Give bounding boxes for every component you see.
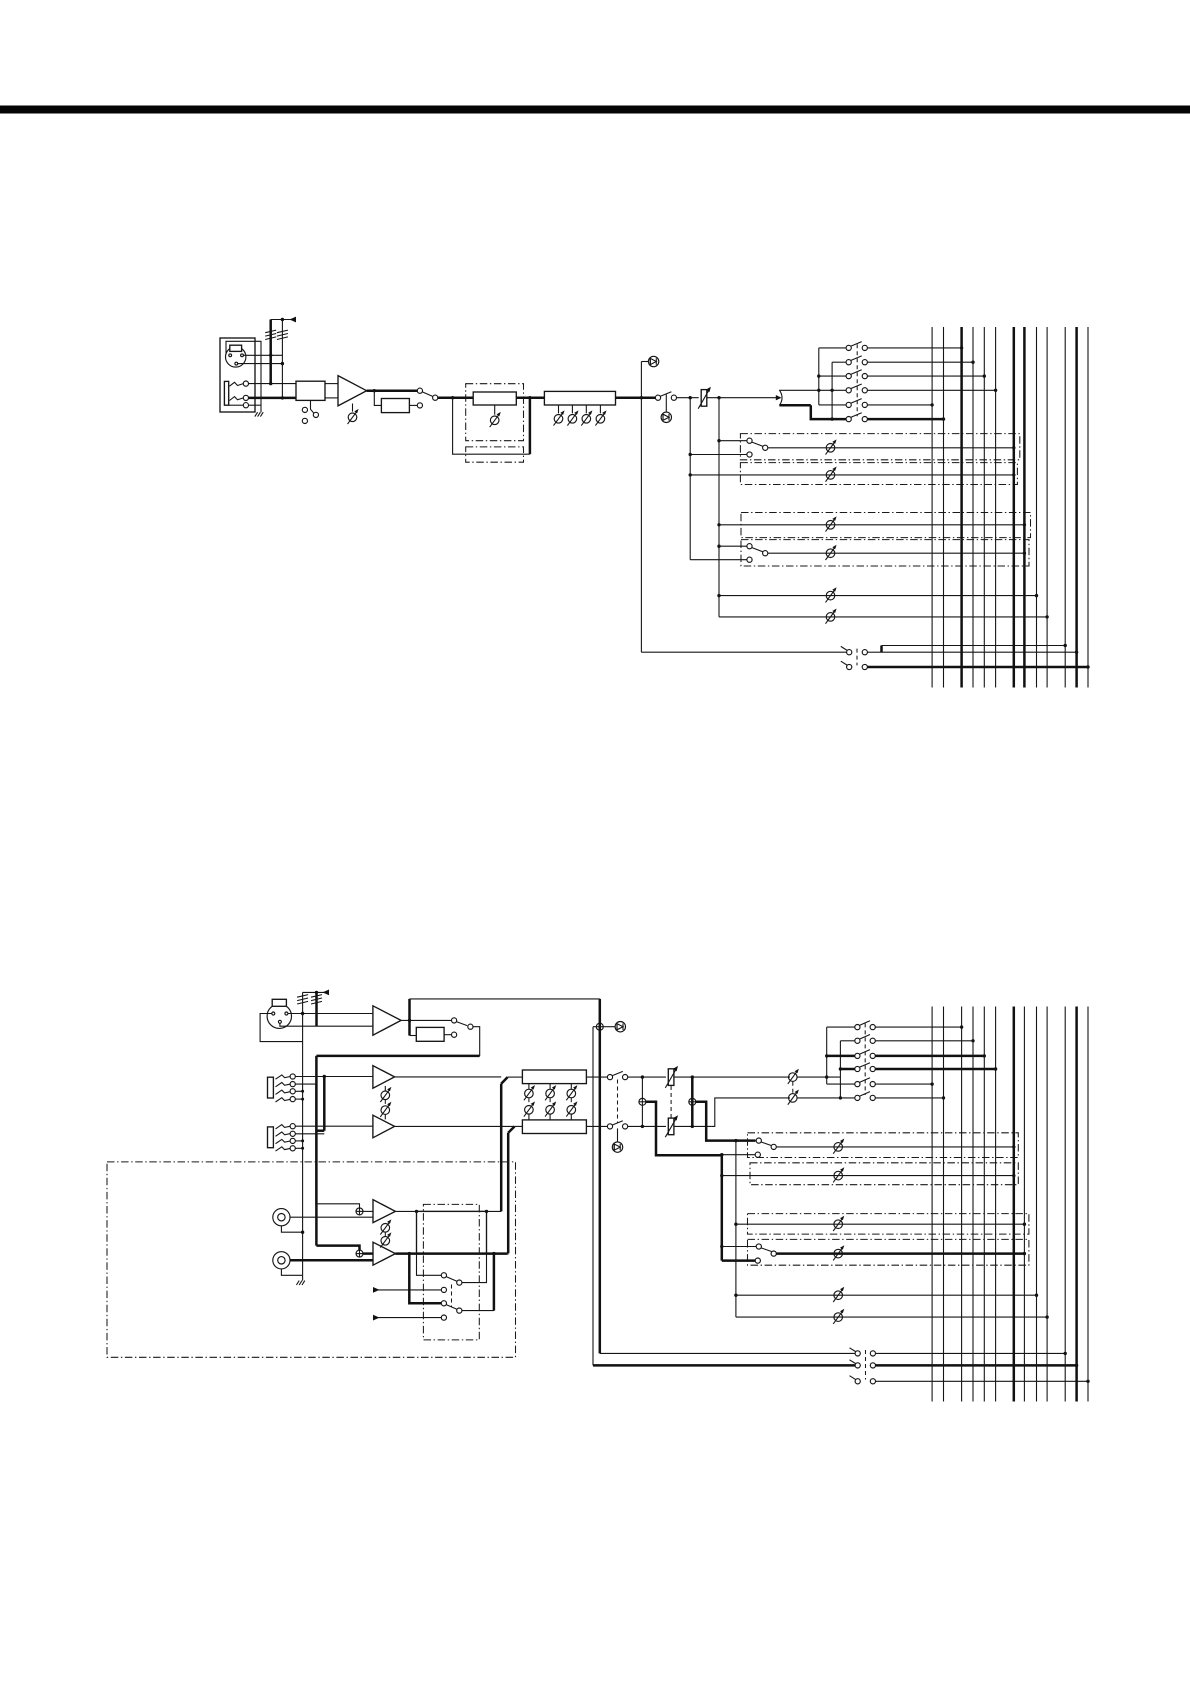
summing node pre [639, 1098, 646, 1105]
assign2 switch 4 lever [859, 1063, 870, 1068]
eff2 pre/post pole [763, 551, 768, 556]
2TR R arrowhead [373, 1315, 380, 1321]
op-amp A1 head amp [338, 376, 367, 406]
junction pan L / even feed [830, 389, 833, 392]
wire assign row3 to bus [867, 375, 984, 377]
assign switch 5 contact R [862, 402, 867, 407]
wire eff1 send 2 [736, 1223, 1025, 1225]
pot EFF2 st [833, 1245, 844, 1260]
junction row4/bus [994, 389, 997, 392]
wire L into EQ [508, 1076, 523, 1078]
op-amp A2 st-mic head amp [373, 1006, 401, 1035]
junction PFL/bus12 [1075, 651, 1078, 654]
wire head amp out (thick) [367, 389, 418, 392]
wire mix bus 4 st [972, 1007, 974, 1402]
wire send4 row 2 [736, 1316, 1047, 1318]
wire ground stub [260, 405, 262, 412]
wire sum stub [593, 1026, 596, 1028]
wire EQ2 stub bottom [549, 1114, 551, 1120]
wire tip to pad [248, 383, 296, 385]
wire select R rise (thick) [493, 1254, 496, 1311]
wire AFL to bus13 (thick) [867, 666, 1088, 669]
junction post sum R [691, 1125, 694, 1128]
wire phantom drop B [281, 320, 283, 398]
jack tip contact [230, 382, 244, 386]
wire PFL drop [640, 362, 642, 653]
EQ block R [522, 1120, 586, 1134]
junction eff1/bus8 2 [1023, 1223, 1026, 1226]
junction PFL/bus12 2 [1075, 1364, 1078, 1367]
junction eff2/bus8 [1023, 552, 1026, 555]
PFL st contact in 1 [855, 1351, 860, 1356]
mic insert contact main [452, 1018, 457, 1023]
junction PFL/bus11 2 [1064, 1352, 1067, 1355]
phone jack L frame [268, 1077, 274, 1098]
wire mix bus 2 [943, 327, 945, 688]
wire tape L out [395, 1210, 501, 1212]
insert contact out [433, 395, 438, 400]
wire assign feed A2 [826, 1027, 828, 1084]
junction select R [408, 1252, 411, 1255]
PFL switch gang bar [856, 649, 858, 666]
wire assign2 row5 to bus [875, 1083, 932, 1085]
pot GAIN L [380, 1087, 391, 1102]
wire aux1 post stub [755, 1140, 756, 1142]
pot AUX2 st [833, 1167, 844, 1182]
wire sub L riser (thick) [500, 1084, 503, 1212]
fader R [665, 1115, 678, 1137]
wire assign row1 in [819, 347, 847, 349]
wire mix bus 4 [972, 327, 974, 688]
jack R contact 2 [276, 1132, 291, 1136]
ON switch contact in [655, 395, 660, 400]
eff2 dashed box 2 [748, 1239, 1029, 1265]
wire XLR2 pin3 cold [280, 1023, 373, 1026]
pot BAL R [788, 1090, 799, 1105]
wire PFL feed to switch [641, 651, 846, 653]
PFL switch 2 contact stub [847, 664, 852, 669]
resistor R1 (phantom) [265, 330, 276, 339]
junction send3/bus9 [1035, 594, 1038, 597]
wire L ring to sum L2 [295, 1084, 359, 1208]
jack L contact circle 2 [290, 1082, 295, 1087]
PFL switch contact out [862, 650, 867, 655]
PFL st lever 1 [850, 1348, 857, 1352]
op-amp A4 line R [373, 1115, 395, 1138]
select R contact 2tr [441, 1315, 446, 1320]
junction row5/bus 2 [930, 1082, 933, 1085]
wire R contact3 gnd [295, 1140, 303, 1142]
wire post-fader drop [718, 398, 720, 617]
panel inner outline / sleeve bus [226, 341, 261, 405]
wire post feed drop 2 [735, 1141, 737, 1318]
junction aux1 post in 2 [734, 1139, 737, 1142]
wire mix bus 6 [995, 327, 997, 688]
wire mic down run (thick) [315, 1056, 318, 1246]
EQ1 gang bar [528, 1098, 530, 1105]
wire PFL out [867, 651, 881, 653]
wire eff2 post in [719, 545, 747, 547]
wire insert send drop [374, 391, 381, 406]
pot TAPE GAIN L [380, 1219, 391, 1234]
assign switch 1 lever [851, 342, 862, 347]
assign switch 2 contact L [846, 360, 851, 365]
wire select L drop [417, 1253, 442, 1275]
pot EQ3 [581, 410, 592, 425]
pot GAIN R [380, 1102, 391, 1117]
wire phantom drop A (thick) [269, 320, 272, 384]
eff2-2 pole [771, 1251, 776, 1256]
assign switch 3 lever [851, 370, 862, 375]
wire phantom/ground drop B2 [302, 992, 304, 1275]
wire bal L out [797, 1076, 840, 1078]
wire assign2 row3 to bus [875, 1055, 984, 1058]
wire post sum drop (thick) [691, 1077, 694, 1126]
junction row1/bus 2 [960, 1025, 963, 1028]
jack R contact 4 [276, 1147, 291, 1151]
bus assign 2 gang bar [864, 1023, 866, 1095]
wire eff2 pre in 2 (thick) [722, 1259, 756, 1262]
PFL switch contact in [847, 650, 852, 655]
junction row2/bus [971, 361, 974, 364]
PFL switch lever 2 [841, 661, 848, 665]
PFL switch 2 contact out [862, 664, 867, 669]
junction pre run tee [720, 1153, 723, 1156]
jack L contact 1 [276, 1075, 291, 1079]
LED peak indicator 1 [648, 356, 658, 366]
wire mic amp out [401, 1019, 452, 1021]
wire assign row5 in [819, 404, 847, 406]
wire mic top run [410, 998, 600, 1000]
wire EQ1 stub bottom [528, 1114, 530, 1120]
contact circle ring [243, 395, 248, 400]
tape gain gang bar [384, 1232, 386, 1236]
wire mix bus 3 st [961, 1007, 963, 1402]
wire mic cross run (thick) [316, 1055, 479, 1058]
summing node post [689, 1098, 696, 1105]
wire L contact4 gnd [295, 1098, 303, 1100]
junction feed B2 row4 [839, 1067, 842, 1070]
wire assign2 row2 to bus [875, 1040, 973, 1042]
junction feed B row6 [830, 417, 833, 420]
wire send4 row [719, 616, 1047, 618]
mic insert block [416, 1027, 444, 1041]
wire aux2 send [690, 474, 1014, 476]
junction row2/bus 2 [971, 1039, 974, 1042]
wire L post fader [674, 1076, 790, 1078]
wire mix bus 12 [1075, 327, 1078, 688]
bal gang bar [792, 1082, 794, 1094]
junction feed A row3 [817, 374, 820, 377]
summing node tape L [356, 1208, 363, 1215]
pot EQ3 L [566, 1085, 577, 1100]
PFL st contact out 3 [870, 1379, 875, 1384]
EQ block L [522, 1070, 586, 1084]
ON switch lever [660, 392, 671, 397]
wire mix bus 11 st [1064, 1007, 1066, 1402]
wire sleeve to frame [229, 404, 244, 406]
jack L contact circle 4 [290, 1097, 295, 1102]
junction PFL/bus11 [1064, 644, 1067, 647]
wire mic insert return [444, 1034, 452, 1036]
wire normal jog (thick) [316, 1129, 324, 1132]
wire eff2 send 2 (thick) [776, 1252, 1024, 1255]
wire peak LED feed [641, 361, 648, 363]
insert switch lever [422, 392, 433, 397]
eff2-2 contact post [756, 1244, 761, 1249]
wire L-R normal drop (thick) [323, 1077, 326, 1131]
+48V arrowhead 2 [323, 990, 330, 996]
wire PFL to bus13 2 [875, 1380, 1088, 1382]
pot SEND4 [826, 609, 837, 624]
wire aux1 pre in [690, 454, 747, 456]
wire EQ L out [586, 1076, 607, 1078]
PFL st lever 2 [850, 1360, 857, 1364]
aux2 dashed box 2 [750, 1163, 1018, 1185]
pad switch feed [311, 400, 314, 413]
pot EQ4 [595, 410, 606, 425]
top page divider bar [0, 106, 1190, 114]
aux1 pre/post contact post [747, 438, 752, 443]
jack ring contact [230, 397, 244, 401]
wire mix bus 9 st [1036, 1007, 1038, 1402]
wire sub L jog (thick) [501, 1077, 507, 1084]
pot SEND4 st [833, 1309, 844, 1324]
wire pad out hot [325, 383, 338, 385]
junction select L return [485, 1210, 488, 1213]
junction mic insert send [408, 1019, 411, 1022]
wire bal R out row6 [797, 1097, 855, 1099]
wire eff2 post in 2 [722, 1246, 757, 1248]
ON R contact out [623, 1124, 628, 1129]
wire comp bypass path [453, 398, 530, 455]
wire mix bus 12 st [1075, 1007, 1078, 1402]
PFL st lever 3 [850, 1376, 857, 1380]
select R lever [446, 1305, 457, 1310]
pot EQ2 L [545, 1085, 556, 1100]
assign switch 5 contact L [846, 402, 851, 407]
assign2 switch 6 contact R [870, 1095, 875, 1100]
junction eff1 feed [717, 523, 720, 526]
EQ2 gang bar [549, 1098, 551, 1105]
wire mix bus 9 [1036, 327, 1038, 688]
assign2 switch 6 contact L [855, 1095, 860, 1100]
wire aux1 pre in 2 [722, 1154, 756, 1156]
assign2 switch 2 contact R [870, 1038, 875, 1043]
wire gain stub R [384, 1115, 386, 1120]
wire sum to LED [603, 1026, 615, 1028]
wire mix bus 8 [1023, 327, 1026, 688]
junction send row feed [717, 594, 720, 597]
wire mix bus 3 [960, 327, 963, 688]
resistor R4 (phantom) [311, 995, 322, 1004]
jack R contact circle 2 [290, 1131, 295, 1136]
select L lever [446, 1277, 457, 1282]
assign switch 4 lever [851, 384, 862, 389]
wire mic mix drop 2 [592, 1027, 594, 1366]
wire mix bus 11 [1064, 327, 1066, 688]
wire assign row4 to bus [867, 389, 995, 391]
gain gang bar [384, 1100, 386, 1106]
pad switch contact down [302, 418, 307, 423]
resistor R2 (phantom) [277, 330, 288, 339]
assign2 switch 2 contact L [855, 1038, 860, 1043]
junction eff2 post feed [717, 545, 720, 548]
wire R to fader [628, 1125, 667, 1127]
assign switch 2 contact R [862, 360, 867, 365]
wire mix bus 1 st [931, 1007, 933, 1402]
junction PFL/bus13 2 [1086, 1380, 1089, 1383]
wire pin1 to panel [226, 354, 229, 356]
junction pin2/R3 [301, 1012, 304, 1015]
comp option dashed box [466, 384, 524, 441]
junction phantom A / tip [269, 382, 272, 385]
wire sub R jog (thick) [508, 1126, 514, 1132]
wire R out corner (thick) [506, 1252, 509, 1255]
pot GAIN [348, 409, 359, 424]
junction send4/bus10 2 [1045, 1315, 1048, 1318]
junction send3/bus9 2 [1035, 1294, 1038, 1297]
assign2 switch 3 contact R [870, 1053, 875, 1058]
junction post-fader tap [717, 396, 720, 399]
wire eff1 send [719, 524, 1024, 526]
wire XLR pin3 cold [238, 363, 283, 365]
insert jack block [381, 399, 409, 413]
wire R ring [295, 1133, 324, 1135]
assign2 switch 1 contact R [870, 1025, 875, 1030]
junction PFL tap [640, 396, 643, 399]
junction bal R feed [839, 1096, 842, 1099]
wire assign feed A [818, 348, 820, 405]
wire mic mix drop (thick) [599, 999, 602, 1354]
junction post sum L [691, 1075, 694, 1078]
wire comp bypass rise (thick) [529, 398, 532, 455]
insert contact return [417, 403, 422, 408]
wire RCA L gnd [281, 1226, 302, 1232]
junction phantom B / ring [281, 396, 284, 399]
wire PFL to bus12 [882, 651, 1077, 653]
eff2-2 contact pre [755, 1258, 760, 1263]
wire aux2 send 2 [722, 1175, 1014, 1177]
jack R contact circle 4 [290, 1146, 295, 1151]
pot EQ2 R [545, 1101, 556, 1116]
wire EQ3 stub top [570, 1084, 572, 1089]
pad switch contact up [302, 407, 307, 412]
wire EQ pot stub 3 [585, 405, 587, 413]
wire PFL R feed (thick) [593, 1364, 855, 1367]
aux1 dashed box [740, 434, 1019, 460]
junction gnd L3 [301, 1090, 304, 1093]
junction pan L / odd feed [817, 389, 820, 392]
assign2 switch 3 lever [859, 1050, 870, 1055]
junction gnd R3 [301, 1139, 304, 1142]
ON switch contact out [671, 395, 676, 400]
fader L [665, 1066, 678, 1088]
pot EQ1 L [524, 1085, 535, 1100]
wire mix bus 13 st [1087, 1007, 1089, 1402]
assign switch 4 contact R [862, 388, 867, 393]
wire RCA L in [290, 1216, 373, 1218]
jack L contact 3 [276, 1090, 291, 1094]
wire XLR pin2 hot [243, 354, 282, 356]
junction select L [415, 1210, 418, 1213]
wire mix bus 7 [1013, 327, 1016, 688]
wire eff2 pre in [690, 559, 747, 561]
wire assign2 row4 in (thick) [840, 1068, 855, 1071]
junction row3/bus [983, 374, 986, 377]
wire assign row5 to bus [867, 404, 932, 406]
wire EQ2 stub top [549, 1084, 551, 1089]
wire 2TR R in [378, 1317, 442, 1319]
wire L tip to amp [295, 1076, 373, 1078]
wire mix bus 8 st [1023, 1007, 1025, 1402]
aux1 pre/post pole [763, 445, 768, 450]
XLR connector J3 [267, 1004, 291, 1028]
pot EFF1 st [833, 1216, 844, 1231]
junction aux2/bus7 [1012, 473, 1015, 476]
assign switch 3 contact L [846, 374, 851, 379]
junction pre sum R [641, 1125, 644, 1128]
assign switch 1 contact R [862, 345, 867, 350]
junction comp bypass merge [528, 396, 531, 399]
RCA connector L [273, 1209, 290, 1226]
junction select R return [492, 1252, 495, 1255]
jack R contact 3 [276, 1139, 291, 1143]
jack R contact circle 1 [290, 1124, 295, 1129]
wire sum to amp R2 (thick) [363, 1252, 373, 1255]
wire RCA R in (thick) [290, 1259, 373, 1262]
select R pole [457, 1308, 462, 1313]
assign2 switch 5 contact L [855, 1082, 860, 1087]
pot EFF2 [826, 545, 837, 560]
junction row6/bus 2 [942, 1096, 945, 1099]
assign2 switch 2 lever [859, 1035, 870, 1040]
assign2 switch 4 contact L [855, 1066, 860, 1071]
select gang bar [451, 1285, 453, 1307]
select L contact 2tr [441, 1287, 446, 1292]
junction aux2 feed [689, 473, 692, 476]
pot SEND3 st [833, 1287, 844, 1302]
wire assign2 row1 to bus [875, 1026, 962, 1028]
wire mix bus 10 [1046, 327, 1048, 688]
PFL st gang bar [865, 1350, 867, 1380]
assign2 switch 6 lever [859, 1092, 870, 1097]
junction pin2/R1 [269, 354, 272, 357]
ground chassis 2 [296, 1281, 304, 1285]
pot EQ3 R [566, 1101, 577, 1116]
PFL st contact out 2 [870, 1363, 875, 1368]
wire send3 row 2 [736, 1294, 1037, 1296]
wire eff2 send [768, 552, 1025, 554]
assign switch 6 contact L [846, 417, 851, 422]
wire gnd stub 2 [302, 1275, 304, 1280]
contact circle tip [243, 381, 248, 386]
op-amp A3 line L [373, 1066, 395, 1089]
wire assign2 row2 in [840, 1040, 855, 1042]
wire post mono run (thick) [696, 1102, 756, 1141]
junction insert send [373, 389, 376, 392]
ON switch gang bar [617, 1080, 619, 1123]
wire L contact3 gnd [295, 1090, 303, 1092]
wire select L pole out [462, 1253, 487, 1282]
wire assign2 row1 in [827, 1026, 855, 1028]
insert contact main [417, 388, 422, 393]
wire assign row3 in [819, 375, 847, 377]
assign switch 2 lever [851, 356, 862, 361]
PFL st contact in 2 [855, 1363, 860, 1368]
eff2 dashed box [741, 540, 1029, 566]
wire assign feed B2 [839, 1041, 841, 1098]
